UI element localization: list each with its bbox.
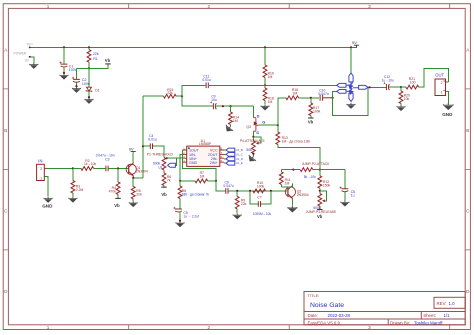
resistor R9 22k [235,191,246,213]
resistor R3 2.2M [71,168,84,196]
svg-text:1: 1 [47,4,50,9]
resistor R20 10k [399,87,410,105]
resistor R12 150k [318,170,331,191]
ground C2 [72,87,80,93]
svg-text:S: S [256,130,259,135]
svg-text:2: 2 [441,81,443,85]
svg-text:1M: 1M [233,119,238,123]
svg-text:EasyEDA V5.6.9: EasyEDA V5.6.9 [308,320,341,325]
svg-text:REV:: REV: [437,301,447,306]
capacitor C6 0.047u [216,181,287,194]
diode D1 zener [86,68,100,98]
capacitor C1 100u [60,47,77,74]
potentiometer P1-THRESHOLD 500k [147,153,177,170]
resistor R15 22k [143,88,182,98]
svg-text:0.01u: 0.01u [148,137,157,141]
transistor Q2 2N3904 [285,183,308,199]
svg-text:C7: C7 [257,196,261,200]
resistor R13 1M [276,125,320,169]
svg-text:2.2M: 2.2M [76,188,84,192]
resistor R17 100k [309,98,321,118]
svg-text:1u → 2.2uf: 1u → 2.2uf [183,215,199,219]
svg-text:1k→10k: 1k→10k [84,162,96,166]
svg-text:Noise Gate: Noise Gate [310,302,344,309]
svg-text:GND: GND [442,112,453,117]
connector IN [37,158,73,196]
resistor R6 7k [162,170,171,187]
ground R18 [261,104,269,110]
net port Vb (P3) [317,210,323,220]
potentiometer JUMP-P2-ATTACK 5k-10k [293,162,330,179]
svg-text:22k: 22k [241,202,247,206]
capacitor C2 100u [72,77,90,87]
resistor R1 22k [87,47,99,68]
wire 1IN- feedback [180,154,182,181]
capacitor C3 0.047u-10n [96,153,129,171]
wire Q1 collector [132,153,134,162]
ground R14 (rotated) [224,124,234,134]
wire Q2 collector to R11 [281,183,292,186]
svg-text:GND: GND [189,161,198,165]
capacitor C9 10u [182,94,253,109]
capacitor C8 1u [320,170,355,201]
svg-text:TITLE:: TITLE: [308,293,320,298]
svg-text:P4-ATTENUATE: P4-ATTENUATE [240,139,266,143]
resistor R21 100 [401,68,448,89]
svg-text:B: B [466,128,469,133]
svg-text:2N3904: 2N3904 [136,170,148,174]
wire emitter column to R15 [142,96,144,178]
wire 1IN+ to P1 [167,157,183,159]
jumper flags U1 spare pins [224,148,235,165]
capacitor C10 0.047u [318,89,332,101]
svg-text:10u: 10u [211,98,217,102]
svg-text:1u→10u: 1u→10u [382,79,394,83]
svg-text:Sheet:: Sheet: [423,313,436,318]
svg-text:GND: GND [42,204,53,209]
wire C10 bypass loop [333,87,368,115]
capacitor C4 0.01u [142,134,164,158]
svg-text:R1: R1 [93,57,98,61]
svg-text:IN: IN [38,158,42,163]
svg-text:0V: 0V [25,58,30,62]
ground R5 [129,201,137,207]
svg-text:9V: 9V [352,40,357,45]
svg-text:U1: U1 [159,165,163,169]
ground C8 [341,201,349,207]
svg-text:U1_E: U1_E [236,161,243,165]
svg-text:9V: 9V [129,147,134,152]
svg-text:1M: 1M [268,100,273,104]
wire opto output [368,86,386,88]
svg-text:JUMP-P2-ATTACK: JUMP-P2-ATTACK [302,162,331,166]
transistor Q3 [246,106,265,137]
svg-text:50k: 50k [246,148,252,152]
svg-text:1: 1 [40,176,42,180]
wire C10 node to opto lower input [333,91,337,97]
wire R1 node to Vb port [89,64,108,68]
svg-text:2022-03-28: 2022-03-28 [328,313,351,318]
svg-text:D: D [257,114,260,119]
node 9V rail junctions [63,46,65,48]
wire Q2 emitter [291,200,293,206]
resistor R2 1k-10k [73,159,106,171]
transistor Q1 2N3904 [126,162,148,177]
wire Q1 emitter node [133,176,143,179]
ground R20 [397,105,405,111]
svg-text:OUT: OUT [435,73,444,78]
svg-text:0.01u: 0.01u [202,78,211,82]
power flag 9V (Q1) [129,147,136,153]
svg-text:P1-THRESHOLD: P1-THRESHOLD [147,153,174,157]
svg-text:22k: 22k [167,91,173,95]
ground power input [30,63,38,69]
svg-text:1M: 1M [200,175,205,179]
resistor R19 1M [263,47,274,85]
svg-text:1u: 1u [351,193,355,197]
svg-text:Vb: Vb [308,120,314,125]
wire 9V rail [31,46,358,48]
potentiometer JUMP-P3-RELEASE 500k [306,191,337,214]
ground R9 [233,213,241,219]
svg-text:100k: 100k [257,184,265,188]
net port Vb (R6) [161,187,167,197]
opto/limiter U2 (flag pins cluster) [337,73,368,101]
net port Vb (R4) [114,198,121,207]
resistor R16 1M [278,88,319,125]
svg-text:1/1: 1/1 [444,313,451,318]
svg-text:100k: 100k [313,109,321,113]
svg-text:U1_B: U1_B [236,148,243,152]
capacitor C5 1u-2.2u [173,207,199,222]
net port Vb (R17) [308,118,314,125]
svg-text:0.047u: 0.047u [318,92,328,96]
wire 9V rail to opto top [350,47,352,73]
resistor R8 680 [178,181,209,209]
svg-text:10k: 10k [404,97,410,101]
svg-text:Toshiko Maroff: Toshiko Maroff [414,320,443,325]
svg-text:1: 1 [47,325,50,330]
ground C5 [176,221,184,227]
svg-text:2: 2 [208,325,211,330]
svg-text:Date:: Date: [308,313,319,318]
connector OUT [435,73,448,103]
svg-text:7k: 7k [167,178,171,182]
ground Q2 [288,206,297,212]
wire 1OUT feedback [182,150,216,181]
svg-text:3: 3 [368,325,371,330]
svg-text:680 - да спомаг 7k: 680 - да спомаг 7k [182,193,210,197]
svg-text:Q3: Q3 [246,125,251,129]
resistor R4 470k [109,168,120,198]
power flag 9V (right) [352,40,359,47]
net port Vb (top) [105,58,111,64]
ground IN [42,197,53,209]
svg-text:0.047u: 0.047u [223,184,233,188]
svg-text:C3: C3 [105,158,109,162]
svg-text:POWER: POWER [14,51,27,55]
svg-text:B: B [4,128,7,133]
ground opto [347,103,355,109]
svg-text:2: 2 [40,167,42,171]
svg-text:D1: D1 [95,88,100,92]
svg-text:1M: 1M [293,91,298,95]
svg-text:1: 1 [441,90,443,94]
svg-text:G: G [262,119,265,124]
svg-text:100u: 100u [69,68,77,72]
svg-text:22k: 22k [93,52,99,56]
svg-text:3: 3 [368,4,371,9]
resistor R11 1M [279,170,290,187]
wire R1 node to C2 [77,68,90,79]
svg-text:LM358P: LM358P [199,142,212,146]
ground C1 [60,74,68,80]
svg-text:1M: 1M [285,182,290,186]
svg-text:Vb: Vb [105,58,111,63]
capacitor C11 0.01u [182,74,265,96]
op-amp U1 LM358P [182,139,224,167]
svg-text:1M - да стока 1.8k: 1M - да стока 1.8k [282,139,311,143]
ground R3 [69,197,77,203]
svg-text:U1_C: U1_C [236,152,243,156]
svg-text:1.0: 1.0 [449,301,456,306]
svg-text:2IN+: 2IN+ [210,161,218,165]
resistor R5 22k [131,178,142,201]
potentiometer P4-ATTENUATE 50k [240,137,266,157]
svg-text:5k→10k: 5k→10k [304,175,316,179]
wire bias node to opto input [265,84,337,86]
ground D1 [85,98,93,104]
svg-text:Vb: Vb [114,203,120,208]
ground P4 (rotated) [247,154,257,164]
wire R11 top [281,169,293,171]
svg-text:470k: 470k [109,190,117,194]
svg-text:150k: 150k [323,184,331,188]
svg-text:Vb: Vb [161,192,167,197]
resistor R14 1M [229,106,240,126]
resistor R10 100k [253,181,266,193]
svg-text:Drawn By:: Drawn By: [390,320,410,325]
resistor R18 1M [263,85,274,104]
svg-text:9V+: 9V+ [27,43,33,47]
svg-text:1M: 1M [268,75,273,79]
svg-text:22k: 22k [136,193,142,197]
wire power 0V to ground [31,57,34,63]
connector P5 POWER pin labels [14,43,33,63]
capacitor C12 1u-10u [382,75,401,90]
svg-text:Vb: Vb [317,214,323,219]
ground OUT [442,103,453,117]
resistor R7 1M [180,171,216,183]
svg-text:2: 2 [208,4,211,9]
wire Q3 gate [259,124,278,126]
svg-text:1000M→10k: 1000M→10k [253,212,271,216]
svg-text:U1_D: U1_D [236,157,243,161]
capacitor C7 [250,191,271,216]
svg-text:2N3904: 2N3904 [297,193,309,197]
svg-text:100: 100 [410,80,416,84]
title block [304,292,465,325]
